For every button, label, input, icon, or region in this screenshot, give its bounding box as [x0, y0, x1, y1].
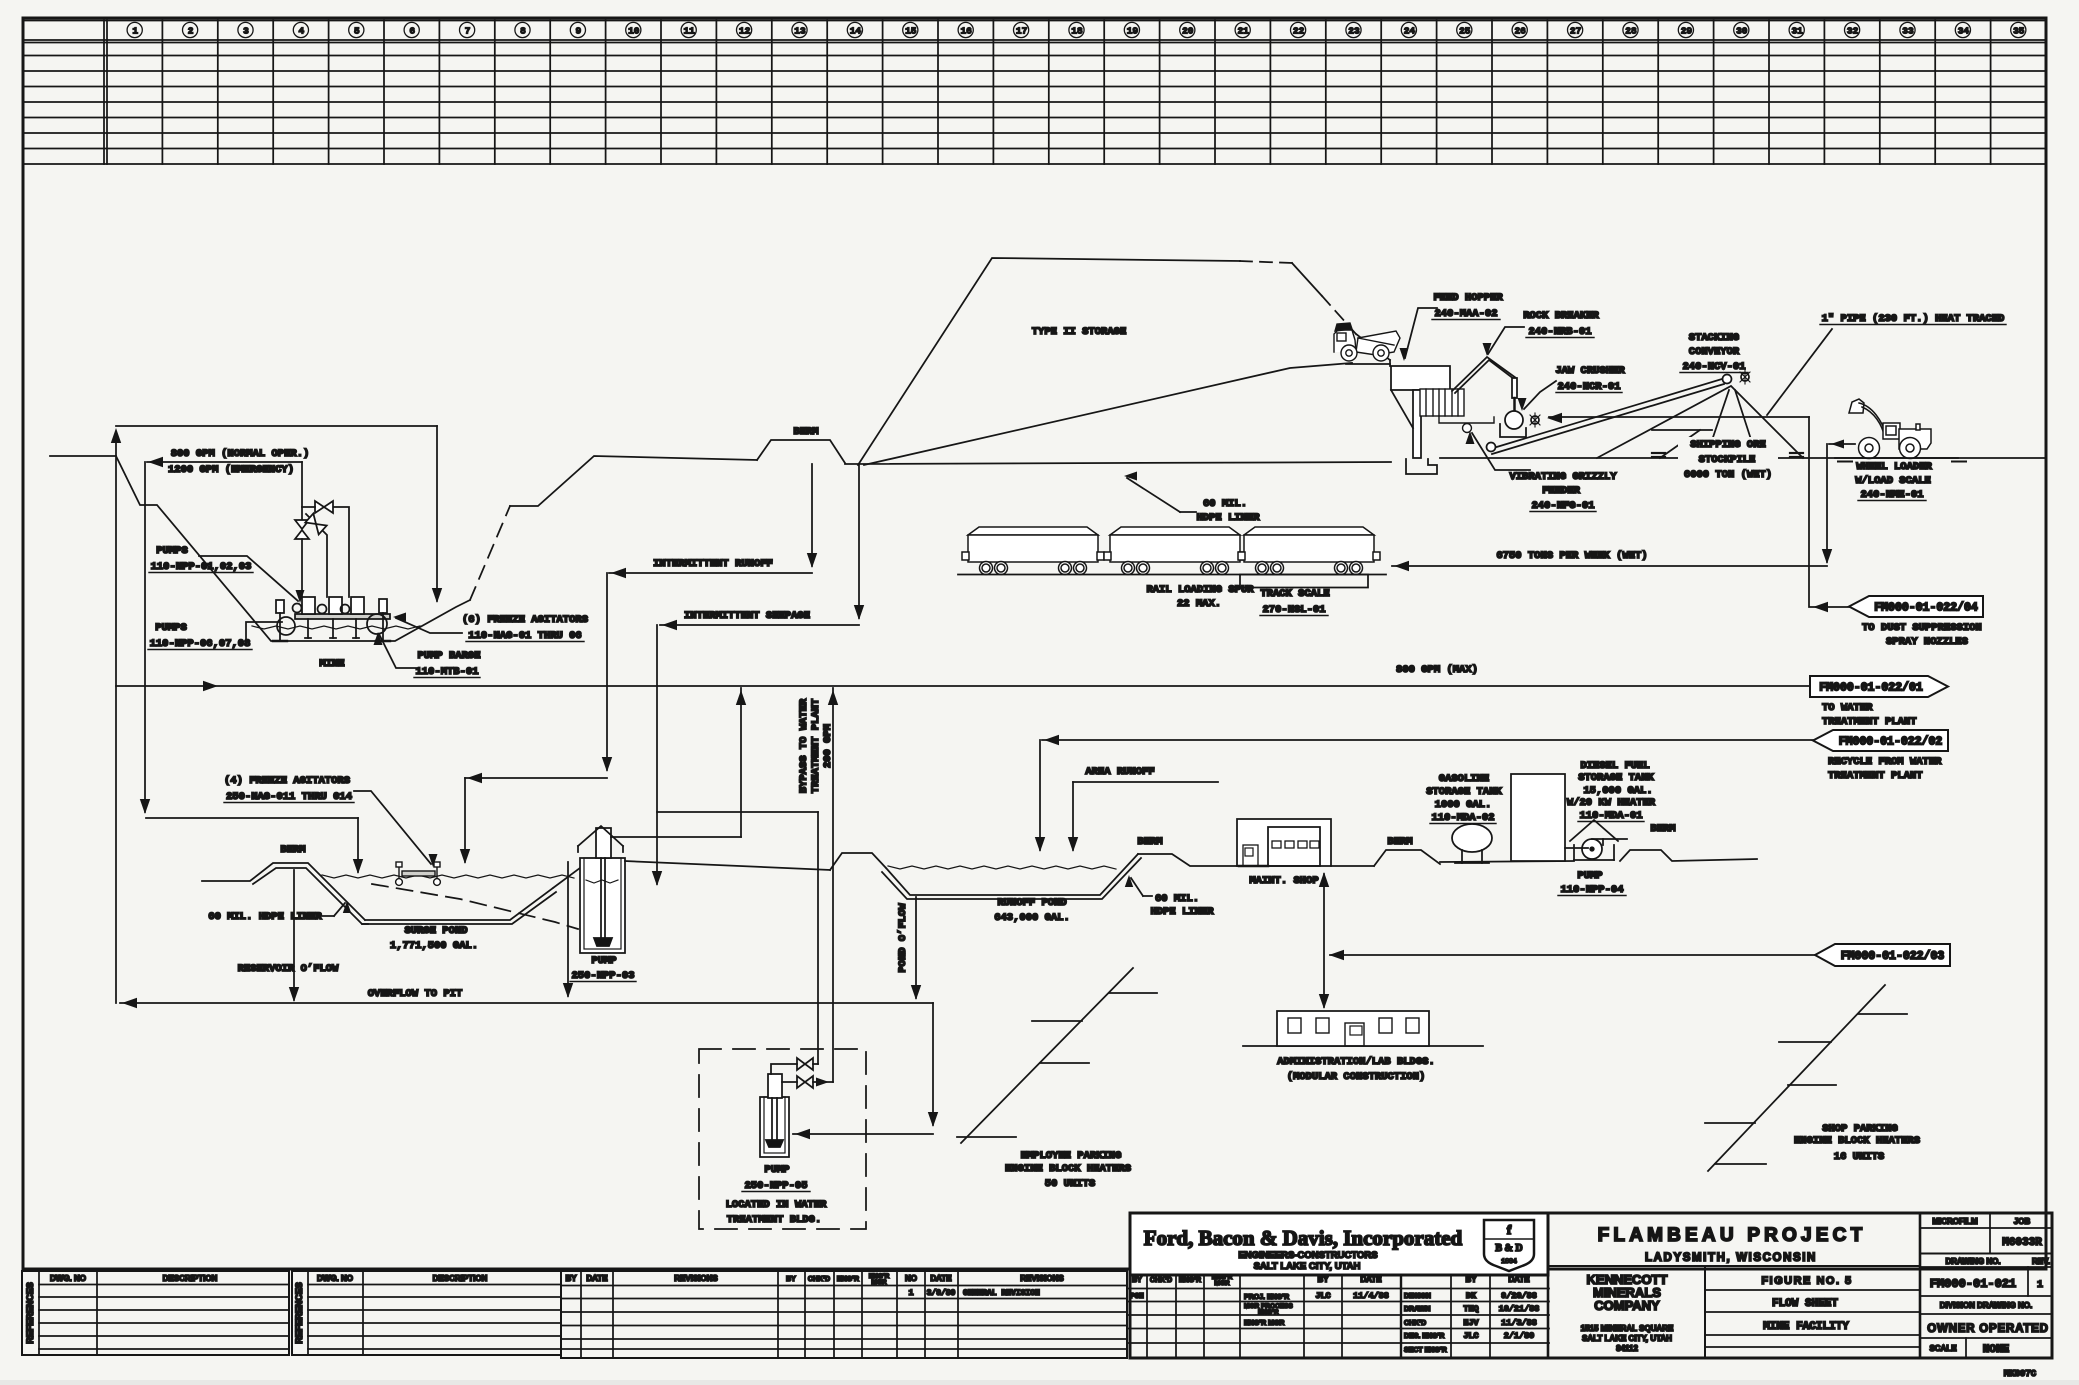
svg-text:9/20/88: 9/20/88: [1501, 1291, 1537, 1301]
svg-text:20: 20: [1182, 26, 1194, 37]
svg-text:240-NCV-01: 240-NCV-01: [1682, 361, 1745, 373]
svg-text:PUMPS: PUMPS: [155, 622, 187, 634]
svg-text:TREATMENT PLANT: TREATMENT PLANT: [1822, 716, 1917, 728]
svg-text:26: 26: [1514, 26, 1526, 37]
svg-text:18: 18: [1071, 26, 1083, 37]
1 inch pipe heat traced: [1549, 416, 1809, 418]
svg-text:WHEEL LOADER: WHEEL LOADER: [1856, 461, 1932, 473]
svg-text:FEEDER: FEEDER: [1542, 485, 1581, 497]
water line surge pond: [322, 875, 574, 878]
spray nozzle at crusher: [1531, 416, 1539, 424]
pond overflow drop to overflow line: [567, 862, 569, 996]
svg-text:DWG. NO: DWG. NO: [50, 1274, 86, 1283]
svg-text:15,000 GAL.: 15,000 GAL.: [1583, 785, 1652, 797]
spray nozzle at conveyor head: [1741, 373, 1749, 381]
wheel loader 240-NME-01: [1849, 399, 1931, 459]
svg-text:Ford, Bacon & Davis, Incorpora: Ford, Bacon & Davis, Incorporated: [1144, 1226, 1463, 1250]
svg-text:ENG’R: ENG’R: [1179, 1277, 1201, 1284]
svg-text:CHK’D: CHK’D: [1150, 1277, 1172, 1284]
svg-text:ROCK BREAKER: ROCK BREAKER: [1523, 310, 1599, 322]
svg-text:FLOW SHEET: FLOW SHEET: [1772, 1298, 1838, 1310]
svg-text:DESCRIPTION: DESCRIPTION: [163, 1274, 218, 1283]
svg-text:OWNER OPERATED: OWNER OPERATED: [1927, 1323, 2049, 1335]
svg-text:27: 27: [1570, 26, 1582, 37]
svg-text:9: 9: [576, 26, 582, 37]
svg-text:AREA RUNOFF: AREA RUNOFF: [1085, 766, 1154, 778]
Ford Bacon Davis box: [1130, 1213, 1548, 1275]
svg-text:DATE: DATE: [930, 1274, 952, 1283]
svg-text:ENGINE BLOCK HEATERS: ENGINE BLOCK HEATERS: [1005, 1163, 1131, 1175]
svg-text:31: 31: [1791, 26, 1803, 37]
svg-text:1000 GAL.: 1000 GAL.: [1435, 799, 1492, 811]
svg-text:DESIGN: DESIGN: [1404, 1293, 1431, 1300]
svg-text:2: 2: [188, 26, 194, 37]
svg-text:STACKING: STACKING: [1689, 332, 1739, 344]
svg-text:NONE: NONE: [1983, 1344, 2010, 1356]
svg-text:HDPE LINER: HDPE LINER: [1150, 906, 1214, 918]
vibrating grizzly feeder 240-NFG-01: [1420, 389, 1494, 433]
pump house 110-NPP-04: [1570, 820, 1618, 841]
svg-text:240-MAA-02: 240-MAA-02: [1434, 308, 1497, 320]
svg-text:BERM: BERM: [1137, 836, 1162, 848]
svg-text:28: 28: [1625, 26, 1637, 37]
svg-text:250-NPP-05: 250-NPP-05: [744, 1180, 807, 1192]
svg-text:PSH: PSH: [1130, 1293, 1144, 1301]
pump discharge manifold with valves: [301, 462, 303, 520]
svg-text:OVERFLOW TO PIT: OVERFLOW TO PIT: [368, 988, 463, 1000]
svg-text:MK697C: MK697C: [2004, 1369, 2037, 1379]
svg-text:VIBRATING GRIZZLY: VIBRATING GRIZZLY: [1509, 471, 1617, 483]
svg-text:DATE: DATE: [586, 1274, 608, 1283]
svg-text:(MODULAR CONSTRUCTION): (MODULAR CONSTRUCTION): [1287, 1071, 1426, 1083]
svg-text:FLAMBEAU PROJECT: FLAMBEAU PROJECT: [1598, 1225, 1867, 1246]
riser 3 with bowtie valve: [333, 507, 349, 597]
svg-text:ENG’R: ENG’R: [837, 1276, 859, 1283]
pump house roof: [578, 826, 623, 846]
line: pit rim loop to pit (top left): [115, 432, 117, 1003]
mine pit profile: [116, 456, 470, 641]
svg-text:JLC: JLC: [1315, 1291, 1330, 1301]
svg-text:RECYCLE FROM WATER: RECYCLE FROM WATER: [1828, 756, 1942, 768]
svg-text:22 MAX.: 22 MAX.: [1177, 598, 1221, 610]
svg-text:REFERENCES: REFERENCES: [294, 1282, 304, 1344]
feed hopper 240-MAA-02: [1391, 366, 1450, 390]
svg-text:110-MDA-01: 110-MDA-01: [1579, 810, 1642, 822]
berm right of tanks: [1620, 850, 1757, 861]
shop parking rows: [1708, 985, 1885, 1171]
svg-text:COMPANY: COMPANY: [1594, 1298, 1660, 1313]
svg-text:110-MTB-01: 110-MTB-01: [415, 666, 478, 678]
flag FM000-01-022/01: [1810, 676, 1948, 697]
svg-text:ENGINEERS-CONSTRUCTORS: ENGINEERS-CONSTRUCTORS: [1238, 1250, 1377, 1261]
svg-text:15: 15: [905, 26, 917, 37]
svg-text:FM000-01-021: FM000-01-021: [1930, 1277, 2016, 1291]
svg-text:14: 14: [850, 26, 862, 37]
svg-text:6: 6: [409, 26, 415, 37]
svg-text:23: 23: [1348, 26, 1360, 37]
administration/lab buildings: [1243, 1045, 1483, 1047]
overflow to pit line: [120, 1002, 933, 1004]
freeze agitator raft (surge): [396, 862, 441, 885]
svg-text:CONVEYOR: CONVEYOR: [1689, 346, 1740, 358]
runoff pond berm right: [1138, 854, 1237, 866]
svg-text:643,000 GAL.: 643,000 GAL.: [994, 912, 1070, 924]
svg-text:13: 13: [794, 26, 806, 37]
svg-text:MINE FACILITY: MINE FACILITY: [1763, 1321, 1849, 1333]
svg-text:JAW CRUSHER: JAW CRUSHER: [1555, 365, 1625, 377]
svg-text:1: 1: [908, 1288, 913, 1298]
surge pond liner bottom: [365, 888, 553, 920]
emergency line to surge pond: [144, 462, 146, 812]
svg-text:BY: BY: [786, 1276, 796, 1283]
Flambeau project header: [1547, 1213, 1550, 1358]
svg-text:REV.: REV.: [2032, 1257, 2050, 1266]
berm between shop and tanks: [1374, 850, 1440, 866]
svg-text:TO DUST SUPPRESSION: TO DUST SUPPRESSION: [1862, 622, 1982, 634]
diesel fuel storage tank 110-MDA-01: [1511, 774, 1565, 861]
svg-text:250-NAG-011 THRU 014: 250-NAG-011 THRU 014: [226, 791, 352, 803]
svg-text:STORAGE TANK: STORAGE TANK: [1578, 772, 1654, 784]
intermittent runoff line: [609, 572, 812, 574]
line: 800/1200 GPM into pit vertical: [147, 461, 302, 463]
pile top edge at hopper: [1389, 360, 1391, 366]
flag FM000-01-022/04 dust suppression: [1849, 596, 1983, 617]
svg-text:8: 8: [520, 26, 526, 37]
svg-text:TREATMENT PLANT: TREATMENT PLANT: [1828, 770, 1923, 782]
svg-text:M6033R: M6033R: [2002, 1237, 2042, 1249]
svg-text:34: 34: [1958, 26, 1970, 37]
svg-text:ENG’R MGR: ENG’R MGR: [1244, 1320, 1284, 1327]
shipping ore stockpile cone: [1597, 386, 1803, 458]
svg-text:(4) FREEZE AGITATORS: (4) FREEZE AGITATORS: [224, 775, 350, 787]
svg-text:1: 1: [2037, 1280, 2043, 1291]
svg-text:TEQ: TEQ: [1463, 1304, 1478, 1314]
svg-text:60 MIL. HDPE LINER: 60 MIL. HDPE LINER: [208, 911, 322, 923]
svg-text:6000 TON (WET): 6000 TON (WET): [1684, 469, 1772, 481]
svg-text:LOCATED IN WATER: LOCATED IN WATER: [726, 1199, 828, 1211]
svg-text:1200 GPM (EMERGENCY): 1200 GPM (EMERGENCY): [168, 464, 294, 476]
pump 250-NPP-03 caisson: [580, 858, 625, 953]
svg-text:1" PIPE (230 FT.) HEAT TRACED: 1" PIPE (230 FT.) HEAT TRACED: [1822, 313, 2005, 325]
title block mini revision columns: [1146, 1271, 1148, 1358]
Type II storage pile: [858, 258, 1240, 465]
riser 2 with check valve: [306, 514, 327, 597]
svg-text:2/1/89: 2/1/89: [1504, 1331, 1535, 1341]
svg-text:f: f: [1507, 1222, 1512, 1237]
svg-text:BERM: BERM: [793, 426, 818, 438]
suction pipes under barge: [307, 619, 309, 638]
surge pond berm: [202, 863, 365, 920]
WT pump suction from overflow: [932, 1003, 934, 1125]
rotated bypass text: [798, 698, 810, 793]
svg-text:SALT LAKE CITY, UTAH: SALT LAKE CITY, UTAH: [1254, 1261, 1361, 1272]
svg-text:W/20 KW HEATER: W/20 KW HEATER: [1567, 797, 1656, 809]
dump truck on pile: [1334, 323, 1400, 361]
reservoir overflow: [293, 870, 295, 1000]
svg-text:DIESEL FUEL: DIESEL FUEL: [1580, 760, 1649, 772]
svg-text:5: 5: [354, 26, 360, 37]
pile inner ramp: [864, 363, 1352, 465]
svg-text:RUNOFF POND: RUNOFF POND: [997, 897, 1066, 909]
svg-text:1: 1: [132, 26, 138, 37]
rail line: [958, 574, 1386, 576]
svg-text:16 UNITS: 16 UNITS: [1834, 1151, 1884, 1163]
svg-text:B & D: B & D: [1495, 1243, 1522, 1254]
svg-text:11: 11: [683, 26, 695, 37]
svg-text:29: 29: [1681, 26, 1693, 37]
svg-text:SALT LAKE CITY, UTAH: SALT LAKE CITY, UTAH: [1582, 1334, 1672, 1343]
svg-text:240-NCR-01: 240-NCR-01: [1557, 381, 1620, 393]
svg-text:FEED HOPPER: FEED HOPPER: [1433, 292, 1503, 304]
svg-text:INTERMITTENT SEEPAGE: INTERMITTENT SEEPAGE: [684, 610, 810, 622]
svg-text:BERM: BERM: [1650, 823, 1675, 835]
svg-text:ENG’R: ENG’R: [1258, 1309, 1279, 1316]
maint shop / admin connector line: [1323, 874, 1325, 1007]
6750 tons per week line: [1392, 565, 1827, 567]
water line runoff pond: [888, 866, 1116, 869]
svg-text:4: 4: [299, 26, 305, 37]
svg-text:CHK’D: CHK’D: [808, 1276, 830, 1283]
svg-text:ENGINE BLOCK HEATERS: ENGINE BLOCK HEATERS: [1794, 1135, 1920, 1147]
svg-text:35: 35: [2013, 26, 2025, 37]
svg-text:110-NPP-01,02,03: 110-NPP-01,02,03: [151, 561, 252, 573]
svg-text:6750 TONS PER WEEK (WET): 6750 TONS PER WEEK (WET): [1496, 550, 1647, 562]
svg-text:POND O’FLOW: POND O’FLOW: [897, 903, 909, 973]
svg-text:CHK’D: CHK’D: [1404, 1320, 1426, 1327]
svg-text:MAINT. SHOP: MAINT. SHOP: [1249, 875, 1318, 887]
svg-text:STOCKPILE: STOCKPILE: [1699, 454, 1756, 466]
svg-text:22: 22: [1293, 26, 1305, 37]
pit bench and upper wall: [510, 456, 757, 506]
grid column number bubbles 1-35: [127, 22, 2026, 37]
pumps on barge deck: [302, 597, 315, 614]
pond right side up to pump: [553, 868, 580, 888]
svg-text:800 GPM (MAX): 800 GPM (MAX): [1396, 664, 1478, 676]
rock breaker 240-NRB-01 boom: [1452, 357, 1516, 391]
pump 250-NPP-05: [760, 1097, 789, 1157]
svg-text:32: 32: [1847, 26, 1859, 37]
pump NPP-03 discharge and bypass riser: [611, 836, 741, 838]
seepage drop: [858, 464, 860, 618]
svg-text:50 UNITS: 50 UNITS: [1045, 1178, 1095, 1190]
gasoline storage tank 110-MDA-02: [1452, 824, 1492, 852]
seepage branch to WT pump suction valve: [657, 811, 818, 813]
svg-text:1884: 1884: [1501, 1258, 1517, 1265]
svg-text:NO: NO: [905, 1274, 917, 1283]
svg-text:1515 MINERAL SQUARE: 1515 MINERAL SQUARE: [1581, 1324, 1674, 1333]
svg-text:BY: BY: [1132, 1277, 1142, 1284]
svg-text:TRACK SCALE: TRACK SCALE: [1260, 588, 1329, 600]
pit wall dashed segment: [470, 506, 510, 600]
flag FM000-01-022/03: [1330, 954, 1815, 956]
svg-text:REFERENCES: REFERENCES: [25, 1282, 35, 1344]
svg-text:FM000-01-022/02: FM000-01-022/02: [1839, 736, 1943, 749]
discharge conveyor to stockpile: [1490, 379, 1722, 449]
svg-text:110-MDA-02: 110-MDA-02: [1431, 812, 1494, 824]
valves at WT pump: [771, 1064, 797, 1074]
hopper car 2: [1104, 527, 1246, 575]
jaw crusher 240-NCR-01: [1505, 411, 1523, 429]
intermittent seepage line: [660, 624, 859, 626]
ground line right of crusher: [1440, 457, 2045, 459]
svg-text:7: 7: [465, 26, 471, 37]
svg-text:RAIL LOADING SPUR: RAIL LOADING SPUR: [1146, 584, 1254, 596]
svg-text:TREATMENT BLDG.: TREATMENT BLDG.: [727, 1214, 822, 1226]
svg-text:INTERMITTENT RUNOFF: INTERMITTENT RUNOFF: [653, 558, 773, 570]
svg-text:FIGURE NO. 5: FIGURE NO. 5: [1761, 1275, 1852, 1287]
svg-text:BERM: BERM: [1387, 836, 1412, 848]
revisions table strip: [561, 1271, 1127, 1358]
svg-text:W/LOAD SCALE: W/LOAD SCALE: [1855, 475, 1931, 487]
svg-text:60 MIL.: 60 MIL.: [1155, 893, 1199, 905]
svg-text:PROJ. ENG’R: PROJ. ENG’R: [1244, 1294, 1289, 1301]
ground under storage pile: [845, 462, 1391, 464]
svg-text:SPRAY NOZZLES: SPRAY NOZZLES: [1886, 636, 1968, 648]
svg-text:HDPE LINER: HDPE LINER: [1196, 512, 1260, 524]
shipping ore stockpile text: [1678, 437, 1778, 483]
rail loading spur: hopper car 1: [962, 527, 1104, 575]
svg-text:GASOLINE: GASOLINE: [1439, 773, 1489, 785]
svg-text:PUMP: PUMP: [764, 1164, 789, 1176]
references table 2: [292, 1271, 561, 1355]
svg-text:110-NPP-06,07,08: 110-NPP-06,07,08: [150, 638, 251, 650]
svg-text:FM000-01-022/01: FM000-01-022/01: [1819, 682, 1923, 695]
svg-text:84112: 84112: [1616, 1344, 1638, 1353]
runoff pond liner: [886, 854, 1138, 895]
svg-text:SURGE POND: SURGE POND: [404, 925, 467, 937]
dashed pump suction in pond: [372, 884, 578, 929]
WT bldg dashed boundary: [699, 1049, 866, 1229]
svg-text:11/4/88: 11/4/88: [1353, 1291, 1389, 1301]
employee parking rows: [961, 968, 1133, 1143]
references table 1: [22, 1271, 289, 1355]
FB&D shield logo: [1484, 1220, 1534, 1271]
svg-text:TYPE II STORAGE: TYPE II STORAGE: [1032, 326, 1127, 338]
svg-text:FM000-01-022/04: FM000-01-022/04: [1874, 602, 1978, 615]
recycle line from water treatment: [1042, 739, 1813, 741]
svg-text:3/9/89: 3/9/89: [927, 1289, 956, 1298]
left mast and right mast: [276, 600, 284, 613]
bypass riser to 800gpm line: [832, 688, 834, 1082]
svg-text:3: 3: [243, 26, 249, 37]
svg-text:16: 16: [960, 26, 972, 37]
top coordinate grid table: [23, 20, 2046, 22]
svg-text:12: 12: [739, 26, 751, 37]
water line in pit: [252, 626, 420, 629]
svg-text:SCALE: SCALE: [1929, 1344, 1957, 1353]
svg-text:PUMP BARGE: PUMP BARGE: [417, 650, 480, 662]
svg-text:250-NPP-03: 250-NPP-03: [571, 970, 634, 982]
svg-text:240-NRB-01: 240-NRB-01: [1528, 326, 1591, 338]
svg-text:RESERVOIR O’FLOW: RESERVOIR O’FLOW: [238, 963, 340, 975]
svg-text:SHOP PARKING: SHOP PARKING: [1822, 1123, 1898, 1135]
svg-text:TREATMENT PLANT: TREATMENT PLANT: [810, 699, 822, 794]
hopper car 3 on track scale: [1238, 527, 1380, 575]
svg-text:PUMP: PUMP: [591, 955, 616, 967]
ground line left of pit: [50, 455, 116, 457]
svg-text:REVISIONS: REVISIONS: [1020, 1274, 1064, 1283]
svg-text:FM000-01-022/03: FM000-01-022/03: [1841, 950, 1945, 963]
svg-text:MINE: MINE: [319, 658, 344, 670]
pond to runoff pond ground: [625, 861, 830, 870]
svg-text:19: 19: [1127, 26, 1139, 37]
svg-text:EMPLOYEE PARKING: EMPLOYEE PARKING: [1021, 1150, 1122, 1162]
flag FM000-01-022/02: [1813, 730, 1948, 751]
svg-text:MGR: MGR: [871, 1279, 886, 1286]
track scale 270-NSL-01: [1240, 575, 1368, 588]
svg-text:DESCRIPTION: DESCRIPTION: [433, 1274, 488, 1283]
runoff pond berm left: [830, 853, 886, 870]
svg-text:30: 30: [1736, 26, 1748, 37]
svg-text:(6) FREEZE AGITATORS: (6) FREEZE AGITATORS: [462, 614, 588, 626]
svg-text:BERM: BERM: [280, 844, 305, 856]
svg-text:240-NFG-01: 240-NFG-01: [1531, 500, 1594, 512]
svg-text:200 GPM: 200 GPM: [822, 724, 834, 768]
truck platform on pile: [1346, 363, 1390, 365]
microfilm/job section: [1920, 1227, 2052, 1229]
maintenance shop: [1237, 819, 1331, 866]
svg-text:PUMPS: PUMPS: [156, 545, 188, 557]
svg-text:DRAWN: DRAWN: [1404, 1306, 1430, 1313]
svg-text:270-NSL-01: 270-NSL-01: [1262, 604, 1325, 616]
svg-text:110-NPP-04: 110-NPP-04: [1560, 884, 1623, 896]
runoff drop from berm: [811, 464, 813, 566]
figure box: [1919, 1213, 1922, 1358]
svg-text:24: 24: [1404, 26, 1416, 37]
svg-text:DK: DK: [1466, 1291, 1477, 1301]
svg-text:BYPASS TO WATER: BYPASS TO WATER: [798, 698, 810, 793]
area runoff line: [1073, 781, 1218, 783]
pump barge 110-MTB-01: [295, 614, 390, 619]
svg-text:SECT ENG’R: SECT ENG’R: [1404, 1347, 1447, 1354]
svg-text:DES. ENG’R: DES. ENG’R: [1404, 1333, 1444, 1340]
svg-text:MGR: MGR: [1214, 1280, 1229, 1287]
800 GPM (MAX) line to water treatment: [116, 685, 1810, 687]
crusher foundation: [1406, 459, 1437, 474]
svg-text:BY: BY: [565, 1274, 577, 1283]
svg-text:800 GPM (NORMAL OPER.): 800 GPM (NORMAL OPER.): [171, 448, 310, 460]
svg-text:DIVISION DRAWING NO.: DIVISION DRAWING NO.: [1940, 1301, 2032, 1310]
svg-text:110-NAG-01 THRU 06: 110-NAG-01 THRU 06: [468, 630, 581, 642]
svg-text:21: 21: [1237, 26, 1249, 37]
svg-text:10/21/88: 10/21/88: [1499, 1304, 1540, 1314]
svg-text:LADYSMITH, WISCONSIN: LADYSMITH, WISCONSIN: [1645, 1252, 1817, 1264]
svg-text:240-NME-01: 240-NME-01: [1860, 489, 1923, 501]
svg-text:STORAGE TANK: STORAGE TANK: [1426, 786, 1502, 798]
svg-text:60 MIL.: 60 MIL.: [1203, 498, 1247, 510]
svg-text:JLC: JLC: [1463, 1331, 1478, 1341]
berm at pile: [757, 440, 845, 463]
svg-text:ADMINISTRATION/LAB BLDGS.: ADMINISTRATION/LAB BLDGS.: [1277, 1056, 1435, 1068]
Kennecott box: [1704, 1266, 1706, 1358]
svg-text:25: 25: [1459, 26, 1471, 37]
loader to rail line: [1829, 443, 1855, 445]
svg-text:11/3/88: 11/3/88: [1501, 1318, 1537, 1328]
svg-text:HJV: HJV: [1463, 1318, 1479, 1328]
svg-text:1,771,500 GAL.: 1,771,500 GAL.: [390, 940, 478, 952]
svg-text:MICROFILM: MICROFILM: [1932, 1217, 1978, 1226]
svg-text:DRAWING NO.: DRAWING NO.: [1945, 1257, 2000, 1266]
svg-text:JOB: JOB: [2014, 1217, 2031, 1226]
svg-text:REVISIONS: REVISIONS: [674, 1274, 718, 1283]
svg-text:DWG. NO: DWG. NO: [317, 1274, 353, 1283]
svg-text:17: 17: [1016, 26, 1028, 37]
ground under tanks: [1440, 861, 1574, 862]
ground maint shop to berm2: [1331, 865, 1374, 867]
svg-text:PUMP: PUMP: [1577, 870, 1602, 882]
svg-text:TO WATER: TO WATER: [1822, 702, 1873, 714]
svg-text:10: 10: [628, 26, 640, 37]
